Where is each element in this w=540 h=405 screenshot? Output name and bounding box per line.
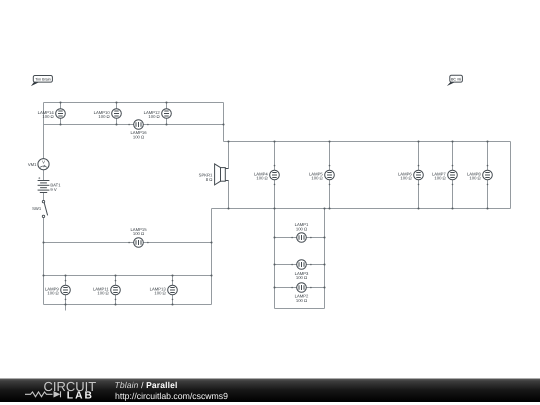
svg-text:100 Ω: 100 Ω	[469, 176, 480, 181]
svg-text:VM1: VM1	[28, 162, 37, 167]
svg-text:V: V	[42, 159, 45, 164]
svg-text:100 Ω: 100 Ω	[296, 298, 307, 303]
svg-text:100 Ω: 100 Ω	[133, 134, 144, 139]
svg-text:100 Ω: 100 Ω	[434, 176, 445, 181]
svg-text:100 Ω: 100 Ω	[400, 176, 411, 181]
svg-text:100 Ω: 100 Ω	[42, 114, 53, 119]
svg-text:100 Ω: 100 Ω	[296, 227, 307, 232]
svg-text:100 Ω: 100 Ω	[296, 275, 307, 280]
svg-text:BC #6: BC #6	[451, 77, 461, 81]
svg-text:100 Ω: 100 Ω	[311, 176, 322, 181]
svg-text:+: +	[38, 175, 41, 180]
svg-text:100 Ω: 100 Ω	[148, 114, 159, 119]
svg-text:SW1: SW1	[32, 206, 42, 211]
svg-text:100 Ω: 100 Ω	[154, 291, 165, 296]
svg-text:100 Ω: 100 Ω	[133, 231, 144, 236]
svg-text:Tblain / Parallel: Tblain / Parallel	[115, 380, 178, 390]
svg-text:100 Ω: 100 Ω	[47, 291, 58, 296]
svg-text:100 Ω: 100 Ω	[97, 291, 108, 296]
svg-text:LAB: LAB	[67, 391, 94, 402]
svg-text:Tim Brain: Tim Brain	[35, 77, 51, 81]
svg-text:9 V: 9 V	[50, 187, 56, 192]
svg-text:100 Ω: 100 Ω	[98, 114, 109, 119]
svg-text:http://circuitlab.com/cscwms9: http://circuitlab.com/cscwms9	[115, 391, 228, 401]
svg-text:100 Ω: 100 Ω	[256, 176, 267, 181]
svg-text:8 Ω: 8 Ω	[206, 177, 213, 182]
